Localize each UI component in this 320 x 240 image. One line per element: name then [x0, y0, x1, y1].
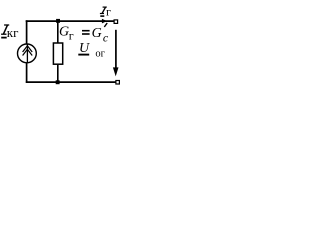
- junction top node: [56, 19, 60, 23]
- wire top horizontal: [26, 20, 115, 22]
- label Iг underline: [100, 15, 104, 17]
- label Iг I: [100, 7, 107, 14]
- junction bottom node: [56, 80, 60, 84]
- equals sign bottom bar: [82, 33, 90, 35]
- svg-text:г: г: [69, 29, 74, 43]
- label Iкг I: [1, 25, 9, 34]
- current source chevron 1: [23, 46, 33, 52]
- terminal top right: [114, 20, 118, 24]
- resistor Gг rectangle: [53, 43, 62, 64]
- wire left vertical top: [26, 20, 28, 44]
- svg-text:ог: ог: [95, 49, 105, 60]
- voltage arrow Uог head: [113, 67, 119, 76]
- wire bottom horizontal: [26, 81, 116, 83]
- svg-text:G: G: [92, 26, 102, 41]
- equals sign top bar: [82, 30, 90, 32]
- voltage arrow Uог line: [115, 30, 117, 70]
- current source Iкг circle: [18, 44, 37, 63]
- label Gc prime: [104, 23, 107, 27]
- current source chevron 2: [23, 49, 33, 55]
- label Uог underline: [78, 54, 89, 56]
- arrowhead current Iг: [102, 19, 107, 24]
- wire resistor top lead: [57, 21, 59, 43]
- svg-text:кг: кг: [7, 25, 19, 40]
- svg-text:с: с: [103, 31, 109, 45]
- wire left vertical bottom: [26, 63, 28, 83]
- wire resistor bottom lead: [57, 65, 59, 83]
- current source arrow shaft: [26, 44, 28, 62]
- svg-text:G: G: [59, 24, 69, 39]
- terminal bottom right: [116, 81, 120, 85]
- label Iкг underline: [1, 37, 7, 39]
- svg-text:г: г: [106, 4, 111, 18]
